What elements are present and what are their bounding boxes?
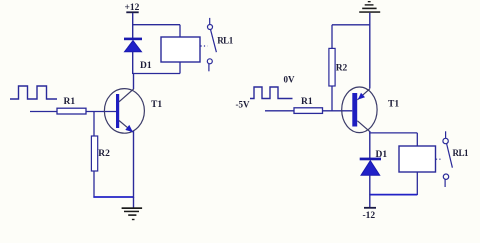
wire emitter down (133, 131, 135, 198)
diode D1 (right) (360, 150, 388, 175)
svg-text:R1: R1 (301, 97, 313, 107)
wire R2 bottom lead (331, 86, 333, 111)
svg-text:-12: -12 (363, 211, 376, 221)
svg-text:0V: 0V (284, 75, 296, 85)
transistor T1 (right, PNP) (342, 87, 400, 133)
wire top tee to relay (133, 24, 180, 26)
wire input to R1 (right) (265, 110, 294, 112)
wire collector tee (right top horizontal) (370, 132, 418, 134)
svg-text:RL1: RL1 (217, 36, 234, 46)
wire relay top lead (179, 25, 181, 37)
wire stub to -12 bar (369, 195, 371, 207)
svg-text:RL1: RL1 (453, 148, 470, 158)
relay coil box (left) (161, 37, 200, 62)
transistor T1 (left, NPN) (104, 89, 162, 134)
wire collector down (369, 131, 371, 134)
relay contact RL1 (left) (201, 18, 234, 71)
svg-text:T1: T1 (388, 100, 399, 110)
wire +12 down to diode (132, 13, 134, 38)
ground (right, top) (359, 1, 380, 13)
ground (left) (122, 197, 143, 220)
svg-text:T1: T1 (151, 100, 162, 110)
wire R2 top lead (331, 25, 333, 49)
svg-text:R1: R1 (64, 97, 76, 107)
input pulse waveform (right) (250, 87, 293, 99)
+12 supply bar (126, 11, 138, 13)
svg-text:D1: D1 (140, 61, 152, 71)
wire R1 to base (right) (323, 110, 353, 112)
wire relay bottom lead (179, 62, 181, 74)
resistor R2 (left) (91, 136, 97, 171)
input pulse waveform (left) (10, 86, 57, 99)
wire collector up (133, 74, 135, 89)
resistor R1 (right) (294, 108, 323, 114)
svg-text:+12: +12 (125, 3, 140, 13)
wire junction to R2 (93, 112, 95, 137)
svg-text:R2: R2 (336, 64, 348, 74)
relay coil box (right) (399, 146, 436, 172)
diode D1 (left) (124, 38, 152, 71)
wire tee to R2 (right) (332, 24, 370, 26)
wire bottom tee to collector (133, 73, 180, 75)
wire R2 bottom lead (93, 171, 95, 198)
wire relay bottom lead (right) (416, 172, 418, 195)
svg-text:-5V: -5V (236, 100, 250, 110)
wire diode to bottom tee (132, 52, 134, 74)
wire R1 to base (86, 111, 116, 113)
wire diode to bottom (369, 175, 371, 195)
svg-text:R2: R2 (98, 149, 110, 159)
svg-text:D1: D1 (376, 150, 388, 160)
wire input to R1 (30, 111, 57, 113)
wire bottom (R2 to emitter) (93, 196, 133, 198)
wire relay top lead (right) (416, 133, 418, 146)
wire diode chain vertical (369, 133, 371, 158)
wire ground down to emitter (369, 13, 371, 89)
relay contact RL1 (right) (436, 131, 469, 187)
wire bottom horizontal (right) (370, 194, 418, 196)
resistor R1 (left) (57, 108, 86, 114)
resistor R2 (right) (329, 48, 335, 86)
-12 supply bar (364, 207, 376, 209)
